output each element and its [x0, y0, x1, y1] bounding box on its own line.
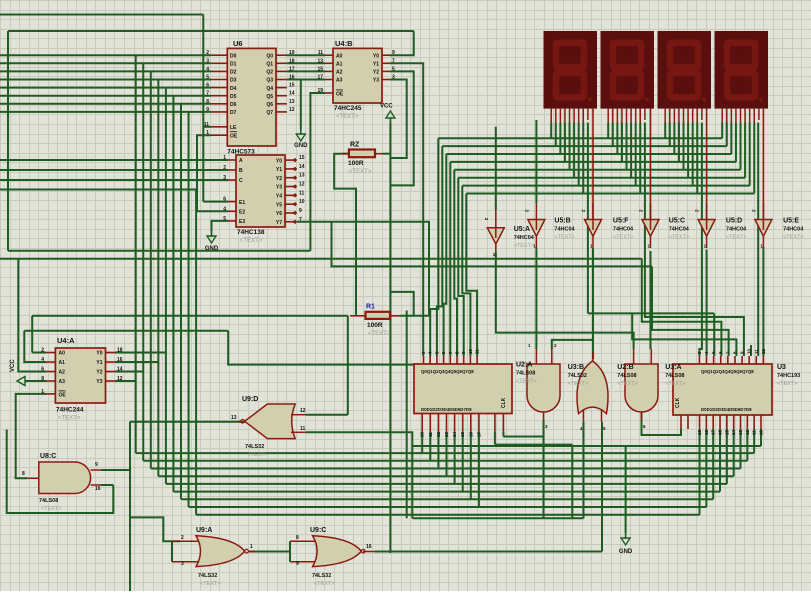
svg-text:12: 12 [117, 376, 123, 382]
svg-text:<TEXT>: <TEXT> [200, 581, 220, 587]
svg-text:Q5: Q5 [266, 94, 273, 100]
svg-text:OE: OE [59, 393, 67, 399]
svg-text:11: 11 [300, 426, 306, 432]
svg-text:LE: LE [230, 125, 237, 131]
svg-text:E2: E2 [239, 210, 245, 216]
svg-text:74LS32: 74LS32 [312, 573, 331, 579]
svg-text:2: 2 [206, 50, 209, 56]
svg-text:15: 15 [289, 83, 295, 89]
svg-text:1: 1 [250, 544, 253, 550]
svg-text:<TEXT>: <TEXT> [240, 238, 263, 244]
svg-text:10: 10 [759, 429, 764, 435]
svg-text:12: 12 [300, 408, 306, 414]
svg-text:4: 4 [206, 66, 209, 72]
svg-text:5: 5 [223, 216, 226, 222]
svg-text:74HC244: 74HC244 [56, 407, 84, 414]
svg-text:5: 5 [206, 75, 209, 81]
svg-text:16: 16 [468, 431, 473, 437]
svg-text:14: 14 [299, 164, 305, 170]
svg-text:<TEXT>: <TEXT> [568, 381, 588, 387]
svg-text:Y5: Y5 [276, 202, 282, 208]
svg-text:17: 17 [289, 66, 295, 72]
svg-text:VCC: VCC [10, 359, 16, 372]
svg-text:3: 3 [181, 561, 184, 567]
svg-text:6: 6 [206, 83, 209, 89]
svg-text:18: 18 [289, 58, 295, 64]
svg-text:14: 14 [731, 429, 736, 435]
svg-text:74HC138: 74HC138 [237, 229, 265, 236]
svg-text:Y2: Y2 [96, 370, 102, 376]
svg-text:9: 9 [296, 561, 299, 567]
svg-text:10: 10 [468, 348, 473, 354]
svg-text:11: 11 [204, 122, 210, 128]
svg-text:17: 17 [317, 75, 323, 81]
svg-text:8: 8 [41, 376, 44, 382]
svg-text:15: 15 [724, 429, 729, 435]
svg-text:<TEXT>: <TEXT> [617, 381, 637, 387]
svg-text:<TEXT>: <TEXT> [247, 452, 267, 458]
svg-text:6: 6 [41, 367, 44, 373]
svg-text:<TEXT>: <TEXT> [665, 381, 685, 387]
svg-text:74HC04: 74HC04 [554, 227, 575, 233]
svg-text:9: 9 [299, 208, 302, 214]
svg-text:74HC193: 74HC193 [777, 373, 800, 379]
svg-text:B: B [239, 168, 243, 174]
svg-text:9: 9 [206, 107, 209, 113]
svg-text:<TEXT>: <TEXT> [314, 581, 334, 587]
svg-text:3: 3 [392, 75, 395, 81]
svg-text:A3: A3 [59, 379, 66, 385]
svg-text:D1: D1 [230, 62, 237, 68]
svg-text:15: 15 [299, 155, 305, 161]
svg-text:Q1: Q1 [266, 62, 273, 68]
svg-text:14: 14 [117, 367, 123, 373]
svg-text:Q4: Q4 [266, 86, 273, 92]
svg-text:D5: D5 [230, 94, 237, 100]
svg-text:U5:F: U5:F [613, 218, 629, 225]
svg-text:12: 12 [289, 107, 295, 113]
svg-text:13: 13 [444, 431, 449, 437]
svg-text:OE: OE [336, 92, 344, 98]
svg-text:A2: A2 [336, 70, 343, 76]
svg-text:<TEXT>: <TEXT> [368, 331, 391, 337]
svg-text:74LS32: 74LS32 [568, 373, 587, 379]
svg-text:8: 8 [206, 99, 209, 105]
svg-text:Q0Q1Q2Q3Q4Q5Q6Q7Q8: Q0Q1Q2Q3Q4Q5Q6Q7Q8 [421, 369, 474, 374]
svg-text:5: 5 [392, 66, 395, 72]
svg-text:D7: D7 [230, 110, 237, 116]
svg-text:Q2: Q2 [266, 70, 273, 76]
svg-text:4: 4 [223, 206, 226, 212]
svg-text:11: 11 [299, 190, 305, 196]
svg-text:<TEXT>: <TEXT> [516, 379, 536, 385]
svg-text:<TEXT>: <TEXT> [783, 235, 803, 241]
svg-text:17: 17 [476, 431, 481, 437]
svg-text:OE: OE [230, 133, 238, 139]
svg-text:Y3: Y3 [276, 185, 282, 191]
svg-text:U3: U3 [777, 364, 786, 371]
svg-text:VCC: VCC [380, 104, 393, 110]
svg-text:Q0: Q0 [266, 53, 273, 59]
svg-text:Y6: Y6 [276, 211, 282, 217]
svg-text:74HC04: 74HC04 [669, 227, 690, 233]
svg-text:1: 1 [206, 130, 209, 136]
svg-text:U9:A: U9:A [196, 527, 212, 534]
svg-text:A1: A1 [59, 360, 66, 366]
svg-text:3: 3 [223, 175, 226, 181]
svg-text:12: 12 [436, 431, 441, 437]
svg-text:74HC245: 74HC245 [334, 105, 362, 112]
svg-text:11: 11 [428, 432, 433, 437]
svg-text:12: 12 [745, 429, 750, 435]
svg-text:<TEXT>: <TEXT> [349, 169, 372, 175]
svg-text:1: 1 [223, 155, 226, 161]
svg-text:R1: R1 [366, 304, 375, 311]
svg-text:74LS08: 74LS08 [516, 371, 535, 377]
svg-text:74LS08: 74LS08 [617, 373, 636, 379]
svg-text:A: A [239, 158, 243, 164]
svg-text:Y4: Y4 [276, 194, 282, 200]
svg-text:E3: E3 [239, 219, 245, 225]
svg-text:GND: GND [205, 246, 219, 252]
svg-text:U2:A: U2:A [516, 362, 532, 369]
svg-text:CLK: CLK [501, 397, 507, 408]
svg-text:74HC04: 74HC04 [783, 227, 804, 233]
svg-text:74HC04: 74HC04 [613, 227, 634, 233]
svg-text:U4:A: U4:A [57, 336, 75, 345]
svg-text:D2: D2 [230, 70, 237, 76]
svg-text:<TEXT>: <TEXT> [58, 416, 81, 422]
svg-text:13: 13 [231, 415, 237, 421]
svg-text:2: 2 [223, 165, 226, 171]
svg-text:D4: D4 [230, 86, 237, 92]
svg-text:74LS32: 74LS32 [198, 573, 217, 579]
svg-text:3: 3 [206, 58, 209, 64]
svg-text:9: 9 [95, 462, 98, 468]
svg-text:Y1: Y1 [96, 360, 102, 366]
svg-text:GND: GND [619, 549, 633, 555]
svg-text:U9:D: U9:D [242, 396, 258, 403]
svg-text:U5:B: U5:B [554, 218, 570, 225]
svg-text:13: 13 [738, 429, 743, 435]
svg-text:A3: A3 [336, 78, 343, 84]
svg-text:U6: U6 [233, 39, 243, 48]
svg-text:D0D1D2D3D4D5D6D7D8: D0D1D2D3D4D5D6D7D8 [421, 407, 472, 412]
svg-text:11: 11 [752, 430, 757, 435]
svg-text:<TEXT>: <TEXT> [669, 235, 689, 241]
svg-text:U2:B: U2:B [617, 364, 633, 371]
svg-text:74HC04: 74HC04 [726, 227, 747, 233]
svg-text:11: 11 [318, 50, 324, 56]
svg-text:<TEXT>: <TEXT> [726, 235, 746, 241]
svg-text:14: 14 [452, 431, 457, 437]
svg-text:U3:B: U3:B [568, 364, 584, 371]
svg-text:1: 1 [41, 389, 44, 395]
svg-text:D0D1D2D3D4D5D6D7D8: D0D1D2D3D4D5D6D7D8 [701, 407, 752, 412]
svg-text:U5:A: U5:A [514, 226, 530, 233]
svg-text:15: 15 [317, 66, 323, 72]
svg-text:9: 9 [392, 50, 395, 56]
svg-text:12: 12 [761, 348, 766, 354]
svg-text:<TEXT>: <TEXT> [777, 381, 797, 387]
svg-text:74HC04: 74HC04 [514, 235, 535, 241]
svg-text:13: 13 [299, 173, 305, 179]
svg-text:Y0: Y0 [373, 53, 379, 59]
svg-text:16: 16 [117, 357, 123, 363]
svg-text:Y3: Y3 [96, 379, 102, 385]
svg-text:11: 11 [754, 349, 759, 354]
svg-text:8: 8 [22, 471, 25, 477]
svg-text:2: 2 [41, 348, 44, 354]
svg-text:U4:B: U4:B [335, 39, 353, 48]
svg-text:<TEXT>: <TEXT> [336, 114, 359, 120]
svg-text:6: 6 [223, 197, 226, 203]
svg-text:D3: D3 [230, 78, 237, 84]
svg-text:A0: A0 [336, 53, 343, 59]
svg-text:U5:D: U5:D [726, 218, 742, 225]
svg-text:74LS08: 74LS08 [665, 373, 684, 379]
svg-text:74LS08: 74LS08 [39, 498, 58, 504]
svg-text:7: 7 [206, 91, 209, 97]
svg-text:100R: 100R [367, 322, 383, 329]
svg-text:U5:E: U5:E [783, 218, 799, 225]
svg-text:16: 16 [289, 75, 295, 81]
svg-text:E1: E1 [239, 200, 245, 206]
svg-text:10: 10 [299, 199, 305, 205]
svg-text:A2: A2 [59, 370, 66, 376]
svg-text:10: 10 [747, 348, 752, 354]
svg-text:18: 18 [117, 348, 123, 354]
svg-text:13: 13 [317, 58, 323, 64]
svg-text:16: 16 [366, 544, 372, 550]
svg-text:D0: D0 [230, 53, 237, 59]
svg-text:19: 19 [317, 88, 323, 94]
svg-text:C: C [239, 178, 243, 184]
svg-text:19: 19 [697, 429, 702, 435]
svg-text:Y1: Y1 [373, 62, 379, 68]
svg-text:8: 8 [296, 535, 299, 541]
svg-text:U3:A: U3:A [665, 364, 681, 371]
svg-text:Y3: Y3 [373, 78, 379, 84]
svg-text:10: 10 [420, 431, 425, 437]
svg-text:2: 2 [181, 535, 184, 541]
svg-text:CLK: CLK [675, 397, 681, 408]
svg-text:74LS32: 74LS32 [245, 444, 264, 450]
svg-text:Q0Q1Q2Q3Q4Q5Q6Q7Q8: Q0Q1Q2Q3Q4Q5Q6Q7Q8 [701, 369, 754, 374]
svg-text:7: 7 [392, 58, 395, 64]
svg-text:16: 16 [718, 429, 723, 435]
svg-text:Y7: Y7 [276, 220, 282, 226]
svg-text:Q6: Q6 [266, 102, 273, 108]
svg-text:GND: GND [294, 143, 308, 149]
svg-text:Q7: Q7 [266, 110, 273, 116]
svg-text:RZ: RZ [350, 142, 360, 149]
svg-text:Y1: Y1 [276, 167, 282, 173]
svg-text:7: 7 [299, 217, 302, 223]
svg-text:12: 12 [299, 182, 305, 188]
svg-text:15: 15 [460, 431, 465, 437]
svg-text:U9:C: U9:C [310, 527, 326, 534]
svg-text:Y0: Y0 [276, 158, 282, 164]
svg-text:A0: A0 [59, 351, 66, 357]
svg-text:19: 19 [289, 50, 295, 56]
svg-text:Y2: Y2 [276, 176, 282, 182]
svg-text:Y2: Y2 [373, 70, 379, 76]
svg-text:17: 17 [711, 429, 716, 435]
svg-text:14: 14 [289, 91, 295, 97]
svg-text:16: 16 [95, 486, 101, 492]
svg-text:11: 11 [475, 349, 480, 354]
svg-text:Y0: Y0 [96, 351, 102, 357]
svg-text:<TEXT>: <TEXT> [514, 243, 534, 249]
svg-text:100R: 100R [348, 160, 364, 167]
svg-text:4: 4 [41, 357, 44, 363]
svg-text:<TEXT>: <TEXT> [613, 235, 633, 241]
svg-text:18: 18 [704, 429, 709, 435]
svg-text:A1: A1 [336, 62, 343, 68]
svg-text:U8:C: U8:C [40, 453, 56, 460]
svg-text:<TEXT>: <TEXT> [41, 506, 61, 512]
svg-text:U5:C: U5:C [669, 218, 685, 225]
svg-text:13: 13 [289, 99, 295, 105]
svg-text:Q3: Q3 [266, 78, 273, 84]
svg-text:<TEXT>: <TEXT> [554, 235, 574, 241]
svg-text:D6: D6 [230, 102, 237, 108]
